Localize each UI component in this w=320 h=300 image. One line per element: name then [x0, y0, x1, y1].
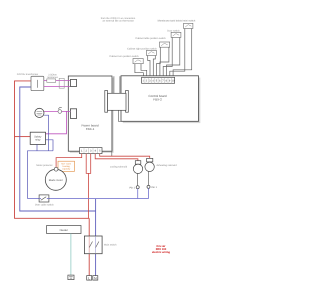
wire: pump to CN2 (magenta)	[44, 110, 70, 112]
node Pin 1 (left)	[130, 186, 140, 190]
wire: board-to-board links into connector	[112, 76, 121, 156]
svg-text:resistance: resistance	[47, 76, 59, 79]
switch S4 (cabinet right position switch)	[127, 47, 157, 55]
wire: mains neutral (blue)	[20, 87, 96, 276]
wire: switch leads routing to 10-pin strip	[135, 29, 192, 78]
connector J2: 10-pin strip on control board	[142, 77, 175, 83]
wire: mains live (red)	[15, 81, 90, 276]
relay K1: safety relay	[30, 132, 45, 144]
wire: blue bottom net	[28, 151, 54, 199]
svg-text:Over cable switch: Over cable switch	[35, 203, 55, 206]
power board U1	[68, 76, 113, 153]
wire: pump to relay net (blue)	[44, 115, 48, 151]
svg-text:Door switch: Door switch	[167, 29, 180, 32]
svg-text:deheating solenoid: deheating solenoid	[156, 164, 177, 167]
switch S6: over cable switch	[35, 195, 55, 206]
svg-text:cooling solenoid: cooling solenoid	[110, 165, 128, 168]
wire: pin1 red bus to motor protector	[56, 154, 82, 168]
svg-text:Blade motor: Blade motor	[49, 179, 63, 182]
connector CN2 on power board	[70, 109, 76, 119]
motor M2: blade motor	[45, 169, 66, 190]
svg-text:Cabinet right position switch: Cabinet right position switch	[127, 47, 157, 50]
switch S3 (cabinet table position switch)	[135, 37, 169, 47]
resistor R1 (2,5 Ohm)	[47, 73, 59, 82]
connector housing on secondary pair	[59, 78, 64, 88]
svg-text:Motor protector: Motor protector	[36, 164, 52, 167]
svg-text:Pin 1: Pin 1	[130, 186, 136, 189]
svg-text:Main switch: Main switch	[104, 243, 117, 246]
solenoid Y2: deheating solenoid	[145, 158, 177, 171]
motor M1: drain pump	[35, 108, 44, 117]
wire: solenoid drops to pins	[138, 172, 149, 186]
svg-text:Cabinet table position switch: Cabinet table position switch	[135, 37, 166, 40]
transformer T1	[17, 73, 44, 90]
connector J4: 5-pin strip on power board	[80, 148, 103, 154]
svg-text:NcT room: NcT room	[61, 162, 71, 165]
svg-text:220/24v transformer: 220/24v transformer	[17, 73, 39, 76]
connector J3 between boards	[105, 91, 129, 113]
switch S7: main switch	[84, 236, 117, 254]
wire: relay bottom stub (blue)	[36, 144, 38, 150]
svg-text:L: L	[88, 276, 90, 280]
connector CN1 on power board	[70, 80, 76, 87]
wire: relay right to bottom net (blue)	[46, 140, 54, 151]
svg-text:Cabinet turn position switch: Cabinet turn position switch	[109, 55, 139, 58]
motor protector P1	[36, 164, 58, 171]
svg-text:heating: heating	[63, 165, 71, 168]
wire: pin5 to deheating solenoid (red)	[100, 154, 150, 159]
note: top-left annotation text	[101, 17, 136, 23]
svg-text:Membrane tank beleid mini swit: Membrane tank beleid mini switch	[158, 20, 196, 23]
terminal N	[93, 276, 98, 281]
switch S1 (membrane mini switch)	[158, 20, 196, 29]
wire: heater earth (teal)	[70, 234, 72, 276]
svg-text:relay: relay	[35, 139, 41, 142]
wire: pin4 to cooling solenoid (red)	[95, 154, 138, 161]
svg-text:Heater: Heater	[60, 228, 68, 232]
heater E1	[47, 226, 81, 234]
svg-text:capacity: capacity	[62, 168, 71, 171]
node Pin 1 (right)	[147, 185, 158, 189]
terminal L	[87, 276, 92, 281]
float switch FS1 on pump line	[58, 107, 62, 113]
thermistor RT1: NTC box	[56, 161, 74, 173]
svg-text:FBX-2: FBX-2	[153, 98, 162, 102]
solenoid Y1: cooling solenoid	[110, 161, 143, 174]
svg-text:Pin 1: Pin 1	[152, 186, 158, 189]
switch S2 (door switch)	[167, 29, 181, 37]
wire: neutral return line through over-cable switch (blue)	[28, 198, 149, 200]
control board U2	[121, 76, 200, 123]
switch S5 (cabinet turn position switch)	[109, 55, 143, 64]
title text (red)	[152, 245, 170, 254]
wire: pins to neutral line (blue)	[138, 188, 149, 198]
wire: pins 2-3 to mains L (red)	[86, 154, 91, 219]
ground terminal	[68, 275, 74, 280]
svg-text:FBX-1: FBX-1	[86, 127, 95, 131]
wire: 24V secondary pair (magenta)	[44, 81, 71, 87]
wire: relay to CN2 (magenta)	[46, 111, 67, 133]
svg-text:electric wiring: electric wiring	[152, 251, 170, 254]
svg-text:an external like as thermostat: an external like as thermostat	[102, 20, 134, 23]
